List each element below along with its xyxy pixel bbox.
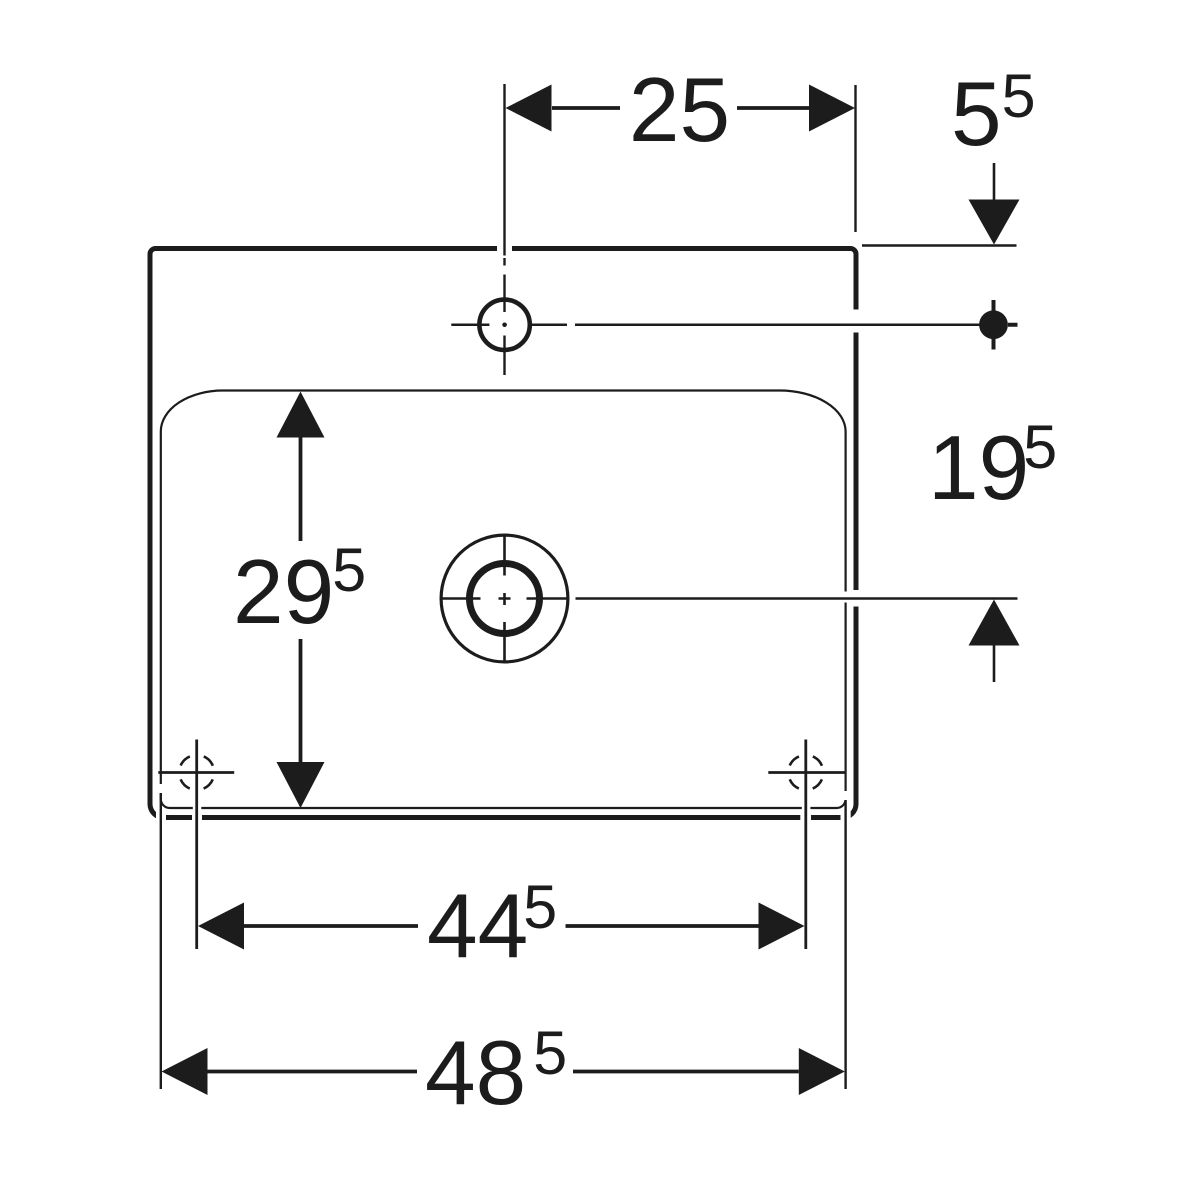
- outer ceramic outline (thick): [150, 249, 856, 818]
- 44.5 arrow right: [759, 903, 805, 950]
- reference dot on tap axis: [979, 310, 1008, 339]
- tap hole center dot: [502, 322, 507, 327]
- 29.5 arrow up: [277, 392, 325, 438]
- 29.5 arrow down: [277, 762, 325, 808]
- 48.5 dimension line: [208, 1070, 799, 1074]
- 5.5 arrow (down): [969, 200, 1020, 245]
- left fixing hole horizontal crosshair: [158, 771, 234, 774]
- 5.5 dimension: reference line at rim level: [862, 244, 1017, 246]
- 25 arrow right: [809, 85, 855, 132]
- drain centerline vertical: [503, 536, 506, 662]
- 48.5 extension lines: [161, 793, 846, 1089]
- svg-text:25: 25: [629, 60, 730, 161]
- dot cross ticks: [994, 300, 1018, 350]
- tap hole centerline horizontal, continues to reference dot: [451, 324, 980, 326]
- 48.5 arrow left: [162, 1048, 208, 1095]
- 44.5 arrow left: [198, 903, 244, 950]
- 25 dimension line: [552, 106, 810, 110]
- drain inner circle (thick): [470, 564, 540, 634]
- drain outer circle: [441, 535, 568, 662]
- right fixing hole horizontal crosshair: [768, 771, 845, 774]
- 44.5 dimension line: [244, 924, 759, 928]
- drain centerline horizontal, continues right as 19.5 reference: [441, 597, 1018, 600]
- 48.5 arrow right: [799, 1048, 845, 1095]
- tap hole circle: [479, 300, 529, 350]
- white breaks where thin lines cross the outlines: [156, 242, 863, 824]
- tap hole centerline vertical (also 25-dim extension line): [451, 84, 980, 375]
- 25 arrow left: [506, 85, 552, 132]
- inner basin outline (thin): [161, 391, 846, 809]
- 44.5 extension / fixing hole vertical centerlines: [197, 740, 806, 950]
- 19.5 arrow tail: [993, 646, 996, 683]
- left fixing hole dashed circle: [179, 755, 214, 790]
- 19.5 arrow (up) below drain line: [969, 600, 1020, 646]
- 5.5 arrow tail: [993, 163, 996, 200]
- right fixing hole dashed circle: [788, 755, 823, 790]
- 25 dimension: right extension line: [854, 85, 856, 232]
- 29.5 dimension line: [299, 438, 303, 763]
